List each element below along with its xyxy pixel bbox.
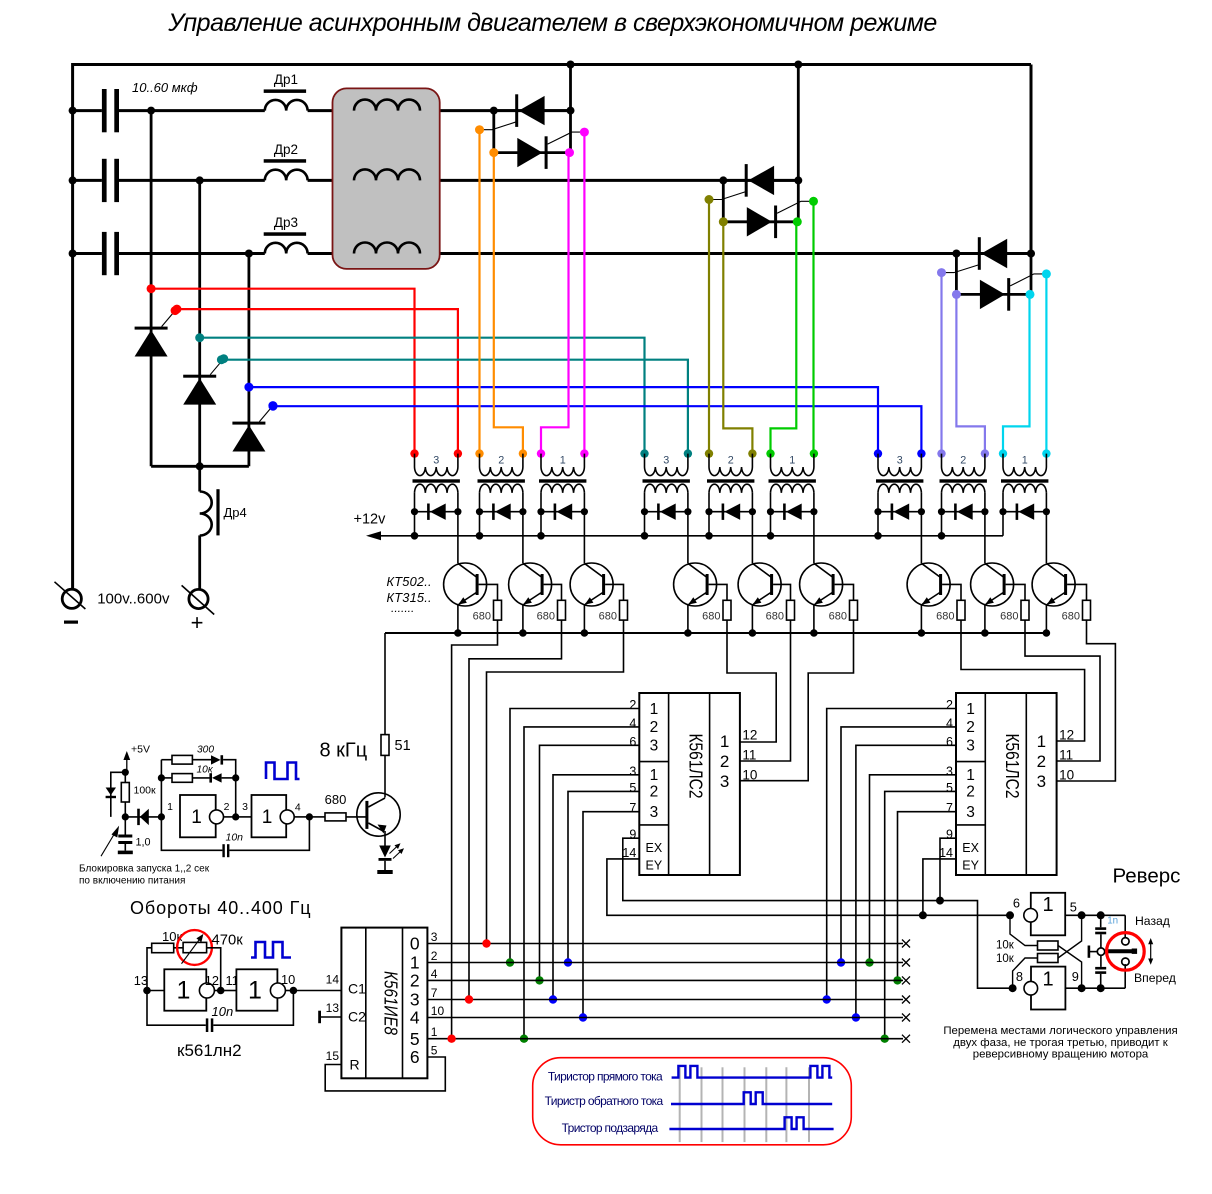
svg-text:680: 680	[1000, 611, 1018, 623]
svg-text:13: 13	[326, 1001, 340, 1015]
svg-text:15: 15	[326, 1049, 340, 1063]
svg-text:1n: 1n	[1107, 916, 1118, 927]
svg-text:6: 6	[410, 1047, 420, 1067]
svg-text:Назад: Назад	[1135, 914, 1170, 928]
svg-text:Обороты 40..400 Гц: Обороты 40..400 Гц	[130, 898, 311, 918]
svg-text:3: 3	[1037, 772, 1046, 791]
svg-text:5: 5	[946, 781, 953, 795]
svg-text:к561лн2: к561лн2	[177, 1041, 242, 1060]
svg-text:10: 10	[431, 1004, 445, 1018]
svg-text:2: 2	[498, 455, 504, 467]
svg-text:EY: EY	[646, 859, 663, 873]
svg-text:300: 300	[197, 744, 214, 755]
svg-text:7: 7	[946, 801, 953, 815]
svg-text:Реверс: Реверс	[1113, 865, 1181, 888]
svg-text:6: 6	[1013, 896, 1020, 911]
svg-text:1: 1	[650, 701, 659, 718]
svg-text:Тиристор прямого тока: Тиристор прямого тока	[548, 1070, 663, 1084]
svg-text:2: 2	[650, 784, 659, 801]
svg-text:7: 7	[629, 801, 636, 815]
svg-text:Перемена местами логического у: Перемена местами логического управления	[943, 1025, 1177, 1037]
svg-text:10n: 10n	[226, 831, 244, 843]
svg-text:2: 2	[410, 971, 420, 991]
svg-text:+: +	[191, 610, 204, 635]
svg-text:3: 3	[242, 801, 248, 813]
svg-text:3: 3	[433, 455, 439, 467]
svg-text:680: 680	[599, 611, 617, 623]
svg-text:реверсивному вращению мотора: реверсивному вращению мотора	[973, 1049, 1149, 1061]
svg-text:2: 2	[650, 719, 659, 736]
svg-text:3: 3	[650, 738, 659, 755]
svg-text:1: 1	[248, 977, 262, 1005]
svg-text:Управление асинхронным двигате: Управление асинхронным двигателем в свер…	[167, 9, 937, 37]
svg-text:3: 3	[720, 772, 729, 791]
svg-text:3: 3	[966, 804, 975, 821]
svg-text:8: 8	[1016, 969, 1023, 984]
svg-text:Тиристр обратного тока: Тиристр обратного тока	[545, 1094, 664, 1108]
svg-text:9: 9	[1072, 969, 1079, 984]
svg-text:3: 3	[946, 764, 953, 778]
svg-text:10: 10	[1059, 768, 1074, 783]
svg-text:3: 3	[966, 738, 975, 755]
svg-text:7: 7	[431, 986, 438, 1000]
svg-text:по включению питания: по включению питания	[79, 875, 185, 886]
svg-text:Др1: Др1	[274, 72, 298, 87]
svg-text:3: 3	[897, 455, 903, 467]
svg-text:1: 1	[1042, 894, 1053, 916]
svg-text:EX: EX	[962, 841, 979, 855]
svg-text:.......: .......	[391, 601, 414, 615]
svg-text:14: 14	[326, 973, 340, 987]
svg-text:680: 680	[537, 611, 555, 623]
svg-text:2: 2	[966, 719, 975, 736]
svg-text:6: 6	[946, 735, 953, 749]
svg-text:680: 680	[1062, 611, 1080, 623]
svg-text:680: 680	[702, 611, 720, 623]
svg-text:100к: 100к	[134, 784, 157, 796]
svg-text:1: 1	[966, 767, 975, 784]
svg-text:К561ИЕ8: К561ИЕ8	[381, 971, 401, 1035]
svg-text:Тристор подзаряда: Тристор подзаряда	[562, 1121, 659, 1135]
svg-text:14: 14	[622, 846, 636, 860]
svg-text:1: 1	[177, 977, 191, 1005]
svg-text:К561ЛС2: К561ЛС2	[1002, 734, 1022, 799]
svg-text:2: 2	[431, 949, 438, 963]
svg-text:2: 2	[966, 784, 975, 801]
svg-text:10: 10	[742, 768, 757, 783]
svg-text:680: 680	[473, 611, 491, 623]
svg-text:1,0: 1,0	[136, 837, 151, 849]
svg-text:680: 680	[325, 792, 347, 807]
svg-text:680: 680	[829, 611, 847, 623]
svg-text:Др4: Др4	[224, 505, 247, 520]
svg-text:1: 1	[720, 732, 729, 751]
svg-text:10: 10	[281, 972, 295, 987]
svg-text:Вперед: Вперед	[1134, 971, 1176, 985]
svg-text:1: 1	[1037, 732, 1046, 751]
svg-text:1: 1	[650, 767, 659, 784]
svg-text:680: 680	[936, 611, 954, 623]
svg-text:12: 12	[1059, 728, 1074, 743]
svg-text:1: 1	[1022, 455, 1028, 467]
svg-text:C1: C1	[348, 981, 366, 997]
svg-text:12: 12	[205, 973, 219, 988]
svg-text:+5V: +5V	[131, 743, 150, 755]
svg-text:12: 12	[742, 728, 757, 743]
svg-text:Др3: Др3	[274, 215, 298, 230]
svg-text:8 кГц: 8 кГц	[320, 740, 368, 762]
svg-text:К561ЛС2: К561ЛС2	[685, 734, 705, 799]
svg-text:10к: 10к	[996, 953, 1015, 965]
svg-text:1: 1	[1042, 969, 1053, 991]
svg-text:5: 5	[431, 1044, 438, 1058]
svg-text:2: 2	[946, 698, 953, 712]
svg-text:Др2: Др2	[274, 142, 298, 157]
svg-text:11: 11	[742, 748, 756, 763]
svg-text:EX: EX	[646, 841, 663, 855]
svg-text:4: 4	[295, 802, 301, 814]
svg-text:2: 2	[224, 801, 230, 813]
svg-text:51: 51	[395, 738, 411, 754]
svg-text:4: 4	[410, 1008, 420, 1028]
svg-text:10n: 10n	[212, 1004, 234, 1019]
svg-text:EY: EY	[962, 859, 979, 873]
svg-text:3: 3	[663, 455, 669, 467]
svg-text:0: 0	[410, 934, 420, 954]
svg-text:двух фаза, не трогая третью, п: двух фаза, не трогая третью, приводит к	[953, 1037, 1169, 1049]
svg-text:1: 1	[431, 1025, 438, 1039]
svg-text:C2: C2	[348, 1009, 366, 1025]
svg-text:3: 3	[431, 930, 438, 944]
svg-text:5: 5	[410, 1029, 420, 1049]
svg-text:1: 1	[560, 455, 566, 467]
svg-text:10к: 10к	[996, 939, 1015, 951]
svg-text:5: 5	[1070, 900, 1077, 915]
svg-text:2: 2	[728, 455, 734, 467]
svg-text:4: 4	[629, 716, 636, 730]
svg-text:4: 4	[946, 716, 953, 730]
svg-text:10к: 10к	[197, 765, 214, 776]
svg-text:680: 680	[766, 611, 784, 623]
svg-text:3: 3	[650, 804, 659, 821]
svg-text:9: 9	[946, 828, 953, 842]
svg-text:13: 13	[134, 973, 148, 988]
svg-text:1: 1	[966, 701, 975, 718]
svg-text:КТ502..: КТ502..	[387, 574, 432, 589]
svg-text:2: 2	[629, 698, 636, 712]
svg-text:1: 1	[262, 807, 273, 828]
svg-text:3: 3	[629, 764, 636, 778]
svg-text:1: 1	[191, 807, 202, 828]
svg-text:+12v: +12v	[354, 512, 387, 528]
svg-text:4: 4	[431, 967, 438, 981]
svg-text:11: 11	[1059, 748, 1073, 763]
svg-text:470к: 470к	[212, 933, 244, 949]
svg-text:2: 2	[720, 752, 729, 771]
svg-text:9: 9	[629, 828, 636, 842]
svg-text:14: 14	[939, 846, 953, 860]
svg-text:2: 2	[960, 455, 966, 467]
svg-text:10..60 мкф: 10..60 мкф	[132, 80, 198, 95]
svg-text:R: R	[350, 1057, 360, 1073]
svg-text:Блокировка запуска 1,,2 сек: Блокировка запуска 1,,2 сек	[79, 864, 210, 875]
svg-text:3: 3	[410, 990, 420, 1010]
svg-text:100v..600v: 100v..600v	[97, 591, 170, 608]
svg-text:2: 2	[1037, 752, 1046, 771]
svg-text:1: 1	[789, 455, 795, 467]
svg-text:1: 1	[167, 801, 173, 813]
svg-text:6: 6	[629, 735, 636, 749]
svg-text:5: 5	[629, 781, 636, 795]
